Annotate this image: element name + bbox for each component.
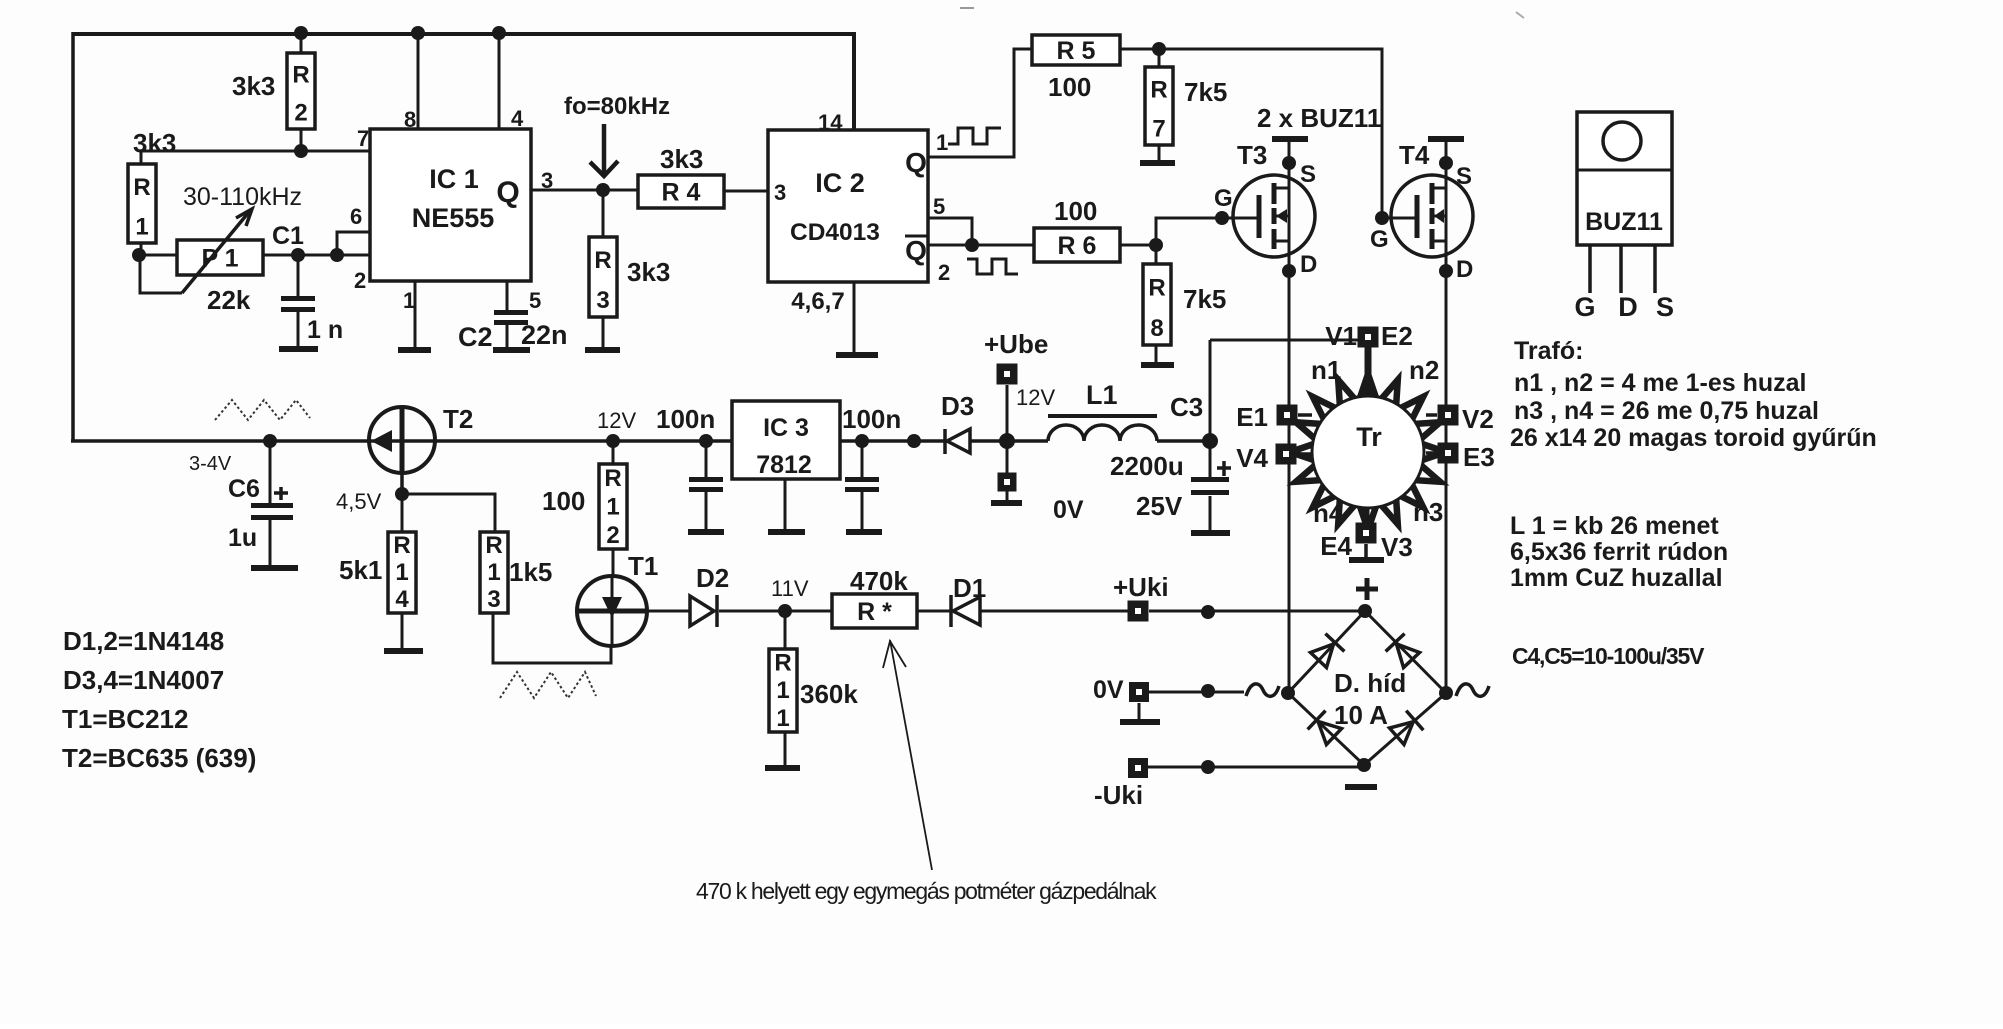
svg-text:3k3: 3k3 — [660, 144, 703, 174]
svg-text:3k3: 3k3 — [232, 71, 275, 101]
svg-text:-Uki: -Uki — [1094, 780, 1143, 810]
svg-text:100n: 100n — [842, 404, 901, 434]
svg-text:1u: 1u — [228, 524, 257, 552]
svg-text:D. híd: D. híd — [1334, 668, 1406, 698]
svg-text:n3: n3 — [1413, 497, 1443, 527]
svg-text:R 6: R 6 — [1058, 232, 1097, 260]
svg-text:4: 4 — [395, 586, 409, 613]
svg-text:T3: T3 — [1237, 140, 1267, 170]
svg-text:12V: 12V — [597, 408, 636, 433]
svg-text:2 x BUZ11: 2 x BUZ11 — [1257, 103, 1381, 133]
svg-text:D1: D1 — [953, 573, 986, 603]
svg-text:D3: D3 — [941, 391, 974, 421]
svg-text:22k: 22k — [207, 285, 251, 315]
svg-text:1mm CuZ huzallal: 1mm CuZ huzallal — [1510, 564, 1723, 592]
svg-text:4: 4 — [511, 106, 524, 131]
svg-text:7812: 7812 — [756, 451, 812, 479]
svg-text:2200u: 2200u — [1110, 451, 1184, 481]
svg-text:Q: Q — [905, 235, 927, 266]
svg-text:3: 3 — [541, 168, 553, 193]
svg-text:7: 7 — [357, 126, 369, 151]
svg-text:V4: V4 — [1236, 443, 1268, 473]
svg-text:3: 3 — [487, 586, 500, 613]
svg-text:L1: L1 — [1086, 380, 1118, 410]
svg-text:E2: E2 — [1381, 321, 1413, 351]
svg-text:NE555: NE555 — [412, 203, 495, 233]
svg-text:R: R — [393, 532, 410, 559]
svg-text:CD4013: CD4013 — [790, 219, 880, 246]
svg-text:T4: T4 — [1399, 140, 1430, 170]
svg-text:0V: 0V — [1053, 496, 1084, 524]
svg-text:n3 , n4 = 26 me 0,75 huzal: n3 , n4 = 26 me 0,75 huzal — [1514, 397, 1819, 425]
svg-text:n4: n4 — [1313, 498, 1344, 528]
svg-text:R: R — [594, 247, 611, 274]
svg-text:V1: V1 — [1325, 321, 1357, 351]
svg-text:IC 1: IC 1 — [429, 164, 479, 194]
svg-text:L 1 = kb 26 menet: L 1 = kb 26 menet — [1510, 512, 1719, 540]
svg-text:n1 , n2 = 4 me 1-es huzal: n1 , n2 = 4 me 1-es huzal — [1514, 369, 1806, 397]
svg-text:3k3: 3k3 — [133, 128, 176, 158]
svg-text:E1: E1 — [1236, 402, 1268, 432]
svg-text:R: R — [1150, 76, 1167, 103]
svg-text:0V: 0V — [1093, 676, 1124, 704]
svg-text:2: 2 — [938, 260, 950, 285]
svg-text:R: R — [485, 532, 502, 559]
svg-text:R *: R * — [857, 598, 892, 626]
svg-text:V2: V2 — [1462, 404, 1494, 434]
svg-text:25V: 25V — [1136, 491, 1183, 521]
svg-text:4,5V: 4,5V — [336, 489, 382, 514]
svg-text:R 5: R 5 — [1057, 37, 1096, 65]
svg-text:R: R — [133, 174, 150, 201]
svg-text:Q: Q — [496, 176, 519, 209]
svg-text:1: 1 — [776, 705, 789, 732]
svg-text:D: D — [1300, 251, 1317, 278]
svg-text:T2: T2 — [443, 404, 473, 434]
svg-text:R: R — [774, 650, 791, 677]
svg-text:6: 6 — [350, 204, 362, 229]
svg-text:3-4V: 3-4V — [189, 453, 232, 475]
svg-text:5k1: 5k1 — [339, 555, 382, 585]
svg-text:IC 3: IC 3 — [763, 414, 809, 442]
svg-text:7: 7 — [1152, 115, 1165, 142]
svg-text:+Ube: +Ube — [984, 329, 1048, 359]
svg-text:1: 1 — [403, 288, 415, 313]
svg-text:T1: T1 — [628, 551, 658, 581]
svg-text:4,6,7: 4,6,7 — [791, 288, 844, 315]
svg-text:470k: 470k — [850, 566, 908, 596]
svg-text:100n: 100n — [656, 404, 715, 434]
svg-text:S: S — [1656, 292, 1674, 322]
svg-text:C1: C1 — [272, 222, 304, 250]
svg-text:8: 8 — [404, 107, 416, 132]
svg-text:C6: C6 — [228, 475, 260, 503]
svg-text:Q: Q — [905, 147, 927, 178]
svg-text:G: G — [1214, 185, 1233, 212]
svg-text:D2: D2 — [696, 563, 729, 593]
svg-text:1 n: 1 n — [307, 316, 343, 344]
svg-text:2: 2 — [354, 268, 366, 293]
svg-text:100: 100 — [1054, 196, 1097, 226]
svg-text:14: 14 — [818, 110, 843, 135]
svg-text:3k3: 3k3 — [627, 257, 670, 287]
svg-text:1: 1 — [395, 559, 408, 586]
svg-text:D: D — [1618, 292, 1638, 322]
svg-text:+Uki: +Uki — [1113, 572, 1169, 602]
svg-text:22n: 22n — [521, 320, 568, 350]
svg-text:BUZ11: BUZ11 — [1585, 208, 1663, 236]
svg-text:D3,4=1N4007: D3,4=1N4007 — [63, 665, 224, 695]
svg-text:1: 1 — [936, 130, 948, 155]
svg-text:5: 5 — [529, 288, 541, 313]
svg-text:6,5x36 ferrit rúdon: 6,5x36 ferrit rúdon — [1510, 538, 1728, 566]
svg-text:2: 2 — [294, 100, 307, 127]
svg-text:1: 1 — [606, 493, 619, 520]
svg-text:26 x14 20 magas toroid gyűrűn: 26 x14 20 magas toroid gyűrűn — [1510, 424, 1877, 452]
svg-text:100: 100 — [1048, 72, 1091, 102]
svg-text:G: G — [1370, 226, 1389, 253]
svg-text:8: 8 — [1150, 315, 1163, 342]
svg-text:S: S — [1300, 161, 1316, 188]
svg-text:V3: V3 — [1381, 532, 1413, 562]
svg-text:R 4: R 4 — [662, 179, 701, 207]
svg-text:n1: n1 — [1311, 355, 1341, 385]
svg-text:12V: 12V — [1016, 385, 1055, 410]
svg-text:3: 3 — [596, 287, 609, 314]
svg-text:1: 1 — [776, 677, 789, 704]
svg-text:D1,2=1N4148: D1,2=1N4148 — [63, 626, 224, 656]
svg-text:fo=80kHz: fo=80kHz — [564, 93, 670, 120]
svg-text:470 k helyett egy egymegás pot: 470 k helyett egy egymegás potméter gázp… — [696, 878, 1157, 904]
svg-text:G: G — [1574, 292, 1595, 322]
svg-text:R: R — [1148, 275, 1165, 302]
svg-text:T1=BC212: T1=BC212 — [62, 704, 188, 734]
svg-text:5: 5 — [933, 194, 945, 219]
svg-text:100: 100 — [542, 486, 585, 516]
svg-text:C2: C2 — [458, 322, 493, 352]
svg-text:1: 1 — [487, 559, 500, 586]
svg-text:11V: 11V — [771, 576, 809, 601]
svg-text:7k5: 7k5 — [1183, 284, 1226, 314]
svg-text:R: R — [604, 465, 621, 492]
svg-text:E3: E3 — [1463, 442, 1495, 472]
svg-text:S: S — [1456, 163, 1472, 190]
svg-text:1: 1 — [135, 213, 148, 240]
svg-text:Tr: Tr — [1356, 422, 1382, 452]
svg-text:D: D — [1456, 256, 1473, 283]
svg-text:7k5: 7k5 — [1184, 77, 1227, 107]
svg-text:C4,C5=10-100u/35V: C4,C5=10-100u/35V — [1512, 643, 1705, 669]
svg-text:T2=BC635 (639): T2=BC635 (639) — [62, 743, 256, 773]
svg-text:30-110kHz: 30-110kHz — [183, 183, 302, 211]
svg-text:E4: E4 — [1320, 531, 1352, 561]
svg-text:C3: C3 — [1170, 392, 1203, 422]
svg-text:2: 2 — [606, 522, 619, 549]
svg-text:3: 3 — [774, 180, 786, 205]
svg-text:IC 2: IC 2 — [815, 168, 865, 198]
svg-text:1k5: 1k5 — [509, 557, 552, 587]
svg-text:R: R — [292, 62, 309, 89]
svg-text:Trafó:: Trafó: — [1514, 337, 1583, 365]
svg-text:n2: n2 — [1409, 355, 1439, 385]
svg-text:10 A: 10 A — [1334, 700, 1388, 730]
svg-text:360k: 360k — [800, 679, 858, 709]
